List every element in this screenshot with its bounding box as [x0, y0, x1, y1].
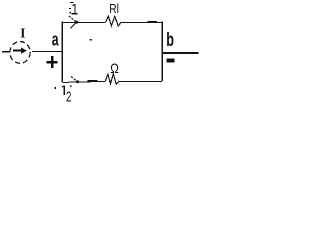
stray speck — [90, 39, 92, 41]
label i2 — [54, 85, 71, 105]
svg-text:b: b — [166, 30, 174, 51]
svg-text:2: 2 — [66, 90, 71, 106]
resistor R1 zigzag — [106, 16, 122, 26]
current arrow i2 tip — [76, 80, 79, 83]
bottom wire left segment — [62, 81, 105, 82]
node b terminal stub wire — [162, 52, 199, 54]
svg-text:a: a — [52, 30, 59, 50]
current arrow i2 barbs — [71, 76, 76, 80]
current arrow i1 barbs — [69, 16, 76, 22]
minus sign — [166, 59, 174, 63]
current source U1 arrow shaft — [13, 49, 21, 51]
current source U1 arrow head — [21, 48, 27, 54]
left vertical wire — [61, 22, 63, 83]
current arrow i1 tip — [75, 21, 78, 24]
bottom wire right segment — [119, 81, 162, 83]
top wire left segment — [62, 22, 105, 24]
current source U1 dashed circle — [10, 42, 30, 64]
svg-text:I: I — [20, 26, 25, 41]
current source U1 left lead wire — [2, 51, 10, 53]
top wire right segment — [121, 22, 162, 24]
plus sign — [46, 56, 57, 68]
wire from source to node a — [32, 50, 62, 52]
svg-text:Ω: Ω — [110, 60, 119, 76]
right vertical wire — [161, 22, 163, 81]
svg-text:Rl: Rl — [109, 1, 119, 16]
label i1 — [69, 2, 77, 14]
resistor R2 zigzag — [105, 74, 119, 85]
bottom wire thick retrace segment — [87, 80, 97, 82]
top wire thick retrace segment — [147, 21, 157, 23]
